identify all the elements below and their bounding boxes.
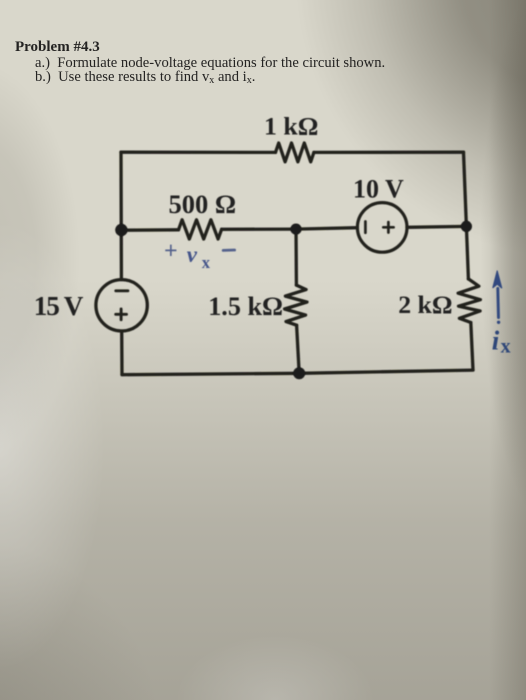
V2 bar symbol	[364, 222, 367, 233]
wire middle horizontal left segment	[121, 228, 178, 232]
svg-text:v: v	[187, 242, 198, 267]
svg-text:x: x	[202, 253, 211, 272]
resistor R4 2 kOhm (right vertical)	[458, 279, 480, 323]
wire middle vertical upper (1.5k branch)	[294, 229, 298, 285]
node dot middle	[290, 224, 301, 235]
label vx minus sign (blue)	[223, 249, 234, 252]
instruction line a	[35, 55, 385, 72]
node dot bottom	[293, 367, 305, 379]
svg-text:+: +	[164, 239, 178, 265]
node dot right-middle	[461, 221, 472, 232]
instruction line b	[35, 69, 255, 86]
svg-text:15 V: 15 V	[34, 291, 84, 321]
resistor R2 500 Ohm (middle)	[179, 220, 222, 239]
V1 plus sign	[116, 309, 127, 320]
wire left vertical upper	[119, 152, 123, 279]
wire from V2 to right vertical	[407, 225, 466, 229]
wire top-right horizontal segment	[314, 151, 464, 154]
current arrow ix head	[493, 271, 502, 288]
resistor R3 1.5 kOhm (middle vertical)	[285, 285, 307, 325]
svg-text:1 kΩ: 1 kΩ	[264, 112, 318, 141]
current arrow ix (blue) shaft	[496, 289, 500, 318]
current arrow ix ink dot	[497, 321, 500, 324]
node dot left-middle	[115, 224, 127, 236]
voltage source V2 10 V (circle)	[357, 203, 407, 253]
resistor R1 1 kOhm (top)	[276, 143, 314, 162]
wire right vertical upper	[464, 152, 469, 279]
svg-text:2 kΩ: 2 kΩ	[398, 290, 452, 319]
wire right vertical lower	[471, 323, 473, 370]
wire middle segment to node	[222, 228, 358, 230]
svg-text:i: i	[492, 325, 500, 355]
wire left vertical lower	[120, 331, 124, 375]
heading: Problem #4.3	[15, 39, 100, 56]
svg-text:500 Ω: 500 Ω	[169, 189, 237, 219]
wire bottom horizontal	[122, 370, 473, 375]
svg-text:10 V: 10 V	[353, 174, 404, 203]
wire middle vertical lower	[297, 325, 300, 373]
svg-text:x: x	[501, 336, 511, 358]
V1 minus sign	[116, 289, 128, 292]
V2 plus sign	[383, 222, 393, 232]
svg-text:1.5 kΩ: 1.5 kΩ	[208, 292, 283, 321]
wire top-left horizontal segment	[121, 151, 276, 154]
voltage source V1 15 V (circle)	[96, 280, 147, 331]
